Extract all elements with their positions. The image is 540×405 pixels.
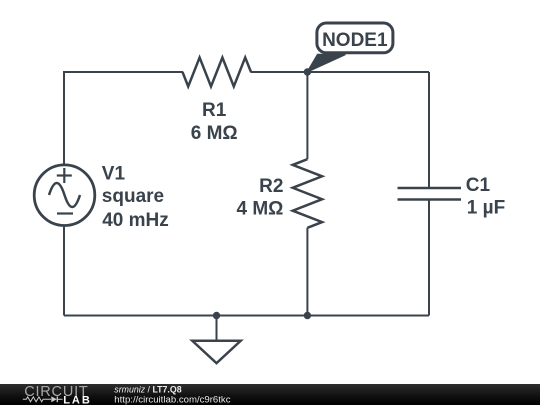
wire top-middle segment <box>251 71 430 73</box>
label V1 <box>102 164 169 232</box>
CircuitLab logo wordmark <box>24 384 88 400</box>
wire R2 top lead <box>306 72 308 159</box>
svg-text:srmuniz / LT7.Q8: srmuniz / LT7.Q8 <box>114 385 181 395</box>
junction R2 bottom dot <box>304 312 311 319</box>
label R2 <box>236 176 283 219</box>
wire C1 bottom lead <box>428 200 430 316</box>
svg-text:V1: V1 <box>102 164 126 185</box>
label C1 <box>466 175 505 219</box>
svg-text:R2: R2 <box>259 176 283 197</box>
svg-text:4 MΩ: 4 MΩ <box>236 198 283 219</box>
wire R2 bottom lead <box>306 228 308 316</box>
wire top-right down to C1 <box>428 72 430 188</box>
svg-text:NODE1: NODE1 <box>322 30 388 51</box>
svg-text:LAB: LAB <box>63 394 92 405</box>
footer url line <box>114 394 230 405</box>
voltage source V1 <box>34 165 95 226</box>
node NODE1 callout <box>307 23 393 72</box>
svg-text:1 µF: 1 µF <box>467 198 505 219</box>
footer bar <box>0 384 540 405</box>
CircuitLab logo mini schematic <box>23 396 63 402</box>
wire bottom segment <box>64 315 429 317</box>
svg-text:square: square <box>102 186 164 207</box>
wire top-left segment <box>64 72 183 165</box>
wire ground stub <box>216 316 218 341</box>
junction ground dot <box>213 312 220 319</box>
svg-text:6 MΩ: 6 MΩ <box>191 123 238 144</box>
svg-text:http://circuitlab.com/c9r6tkc: http://circuitlab.com/c9r6tkc <box>114 394 230 405</box>
resistor R1 <box>183 58 252 87</box>
label R1 <box>191 100 238 144</box>
resistor R2 <box>293 159 322 228</box>
footer credit line <box>114 385 181 395</box>
capacitor C1 <box>398 188 462 200</box>
svg-text:C1: C1 <box>466 175 491 196</box>
ground <box>192 341 240 363</box>
svg-text:40 mHz: 40 mHz <box>102 210 169 231</box>
svg-text:R1: R1 <box>202 100 227 121</box>
wire V1 bottom lead <box>63 226 65 316</box>
CircuitLab logo LAB text <box>63 394 92 405</box>
junction node NODE1 dot <box>304 68 311 75</box>
